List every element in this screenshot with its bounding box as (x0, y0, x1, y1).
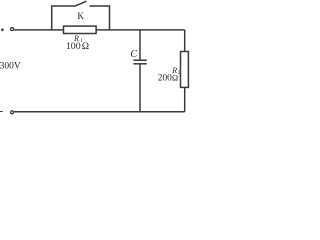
svg-text:Ω: Ω (172, 74, 178, 83)
svg-text:C: C (130, 49, 137, 60)
svg-text:200: 200 (158, 74, 172, 84)
svg-text:100Ω: 100Ω (66, 41, 89, 52)
svg-text:300V: 300V (0, 61, 21, 71)
svg-text:K: K (77, 11, 84, 21)
